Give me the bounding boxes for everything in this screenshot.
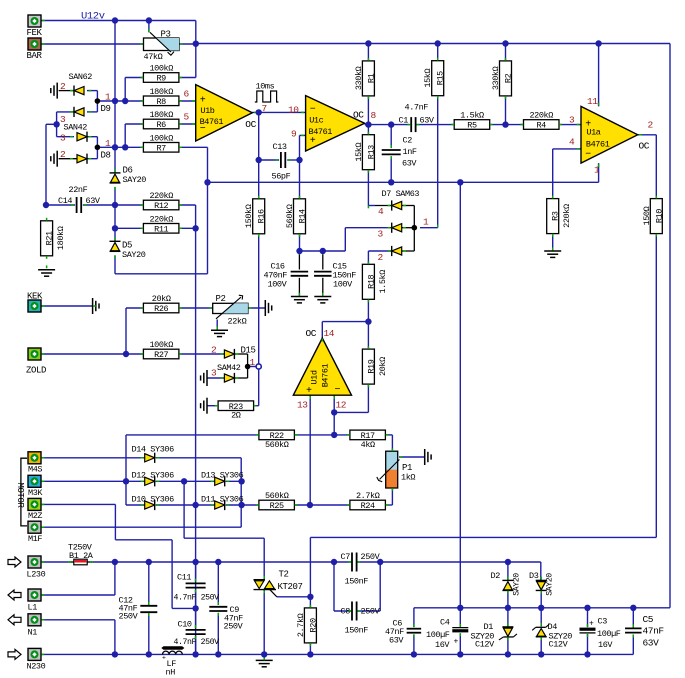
connector L1 <box>28 589 41 601</box>
svg-text:L1: L1 <box>28 603 38 613</box>
wire R13 down to D7 pin4 <box>367 170 369 206</box>
wire R9 right to rail <box>179 77 196 79</box>
wire P3 right to rail <box>179 43 196 45</box>
svg-text:2Ω: 2Ω <box>231 411 241 421</box>
wire bus branch down to supply row <box>459 182 461 608</box>
svg-text:1: 1 <box>105 92 111 103</box>
svg-text:R7: R7 <box>156 144 166 154</box>
capacitor C7 <box>351 553 353 572</box>
svg-text:U1d: U1d <box>310 370 320 384</box>
svg-text:C4: C4 <box>440 618 450 628</box>
wire down to T2 gate and R20 <box>309 537 311 607</box>
svg-text:U1c: U1c <box>309 115 323 125</box>
connector ZOLD <box>28 348 41 360</box>
capacitor C8 <box>351 602 353 621</box>
wire D3 D4 column <box>540 590 542 608</box>
triac T2 <box>254 579 266 581</box>
svg-text:R18: R18 <box>366 274 376 288</box>
svg-text:B4761: B4761 <box>200 117 224 127</box>
svg-text:R25: R25 <box>270 501 284 511</box>
potentiometer P2 <box>213 303 248 313</box>
resistor R15 <box>432 61 444 96</box>
svg-text:R8: R8 <box>156 97 166 107</box>
svg-text:R6: R6 <box>156 120 166 130</box>
capacitor C3 <box>580 628 596 631</box>
wire SAN42 anodes <box>57 111 74 113</box>
resistor R25 <box>259 500 295 510</box>
diode D12 <box>145 477 155 485</box>
svg-text:3: 3 <box>211 368 217 379</box>
svg-text:2: 2 <box>211 345 217 356</box>
wire R22 R17 row <box>126 434 259 436</box>
resistor R1 <box>362 61 374 96</box>
wire M3K row <box>41 480 145 482</box>
svg-text:150nF: 150nF <box>345 577 369 587</box>
svg-text:R15: R15 <box>436 71 446 85</box>
wire C2 column <box>390 125 392 149</box>
wire SAN42 cathodes to node D8 <box>87 136 97 138</box>
wire D14 cathode across <box>156 457 241 459</box>
connector M2Z <box>28 498 41 510</box>
svg-text:12: 12 <box>336 400 347 411</box>
diode SAN62 b <box>74 108 84 116</box>
svg-text:D12 SY306: D12 SY306 <box>132 471 175 481</box>
wire R2 column <box>505 44 507 61</box>
capacitor C6 <box>407 628 422 630</box>
svg-text:250V: 250V <box>119 612 139 622</box>
svg-text:OC: OC <box>306 328 317 339</box>
wire SAN62 top lead <box>59 90 74 92</box>
ground at SAN62 pin2 <box>56 83 58 99</box>
svg-text:560kΩ: 560kΩ <box>285 204 295 228</box>
svg-text:330kΩ: 330kΩ <box>354 66 364 90</box>
svg-text:47kΩ: 47kΩ <box>144 52 163 62</box>
wire node D8 row <box>97 146 143 148</box>
zener D4 <box>536 626 546 628</box>
svg-text:C13: C13 <box>273 142 287 152</box>
svg-text:C12V: C12V <box>549 640 569 650</box>
svg-text:3: 3 <box>378 229 384 240</box>
svg-text:4kΩ: 4kΩ <box>361 440 375 450</box>
svg-text:16V: 16V <box>598 640 613 650</box>
wire R7 right to bus column <box>179 146 208 148</box>
ground KEK <box>92 298 94 314</box>
wire M1F row <box>41 526 241 528</box>
svg-text:22nF: 22nF <box>69 185 88 195</box>
wire D7 pin3 to C15 row <box>345 227 391 229</box>
node D9 <box>95 98 101 104</box>
svg-text:−: − <box>585 150 591 161</box>
wire R23 right elbow <box>254 405 259 407</box>
svg-text:R3: R3 <box>551 211 561 221</box>
svg-text:R24: R24 <box>361 501 375 511</box>
svg-text:C11: C11 <box>177 573 191 583</box>
svg-text:63V: 63V <box>420 116 435 126</box>
wire C7 C8 loop <box>333 562 335 611</box>
connector M3K <box>28 475 41 487</box>
svg-text:OC: OC <box>353 110 364 121</box>
connector L230 <box>28 556 41 568</box>
wire R6 right to U1b- <box>179 123 196 125</box>
op-amp U1b <box>196 85 253 141</box>
svg-text:OC: OC <box>245 119 256 130</box>
wire C5 column <box>632 608 634 628</box>
diode D3 <box>536 579 547 581</box>
wire R16 column <box>258 160 260 199</box>
svg-text:1.5kΩ: 1.5kΩ <box>460 111 484 121</box>
wire D14 column down to M1F <box>240 458 242 527</box>
svg-text:D10 SY306: D10 SY306 <box>132 494 175 504</box>
wire R18 R19 column <box>367 298 369 349</box>
svg-text:D7 SAM63: D7 SAM63 <box>382 189 420 199</box>
svg-text:2.7kΩ: 2.7kΩ <box>296 613 306 637</box>
svg-text:4.7nF: 4.7nF <box>405 103 429 113</box>
svg-text:C3: C3 <box>598 617 608 627</box>
wire R17 to P1 <box>391 435 393 451</box>
resistor R8 <box>143 96 179 106</box>
svg-text:9: 9 <box>291 129 297 140</box>
svg-text:D8: D8 <box>101 151 111 161</box>
wire C16 stem <box>298 251 300 270</box>
svg-text:U1b: U1b <box>200 106 214 116</box>
ground T2 <box>256 659 273 661</box>
wire supply row 12V <box>414 607 670 609</box>
resistor R27 <box>143 349 179 359</box>
wire P1 wiper <box>399 456 425 458</box>
diode D15 a <box>224 350 234 358</box>
wire D15 cathodes <box>234 353 247 355</box>
svg-text:B4761: B4761 <box>586 139 610 149</box>
svg-text:R9: R9 <box>156 74 166 84</box>
wire R6 left elbow <box>125 123 143 125</box>
wire R22 elbow down to M3K node <box>125 435 127 505</box>
svg-text:20kΩ: 20kΩ <box>152 294 171 304</box>
wire U1b output to U1c <box>252 111 305 113</box>
ground C16 <box>291 296 308 298</box>
svg-text:2.7kΩ: 2.7kΩ <box>356 491 380 501</box>
capacitor C14 <box>76 197 78 213</box>
resistor R5 <box>454 120 490 130</box>
resistor R23 <box>218 401 254 411</box>
svg-text:D6: D6 <box>123 166 133 176</box>
svg-text:100µF: 100µF <box>426 630 450 640</box>
wire C12 column <box>148 562 150 605</box>
capacitor C1 <box>410 117 412 132</box>
svg-text:U1a: U1a <box>586 128 600 138</box>
svg-text:D2: D2 <box>491 571 501 581</box>
resistor R13 <box>362 135 374 170</box>
svg-text:330kΩ: 330kΩ <box>491 66 501 90</box>
svg-text:M3K: M3K <box>28 488 43 498</box>
resistor R12 <box>143 200 179 210</box>
diode D6 <box>110 172 121 174</box>
capacitor C10 <box>186 629 206 631</box>
wire +12V top rail <box>196 43 670 45</box>
connector BAR <box>28 38 41 50</box>
op-amp U1c <box>306 96 365 151</box>
wire N230 row <box>41 653 633 655</box>
wire D7 pin2 to R18 <box>368 250 391 252</box>
svg-text:16V: 16V <box>435 640 450 650</box>
svg-text:10: 10 <box>288 105 299 116</box>
svg-text:M1F: M1F <box>28 534 42 544</box>
wire R19 elbow to pin12 column <box>334 411 368 413</box>
svg-text:3: 3 <box>60 133 66 144</box>
svg-text:1: 1 <box>250 357 256 368</box>
svg-text:180kΩ: 180kΩ <box>56 226 66 250</box>
resistor R11 <box>143 224 179 234</box>
svg-text:560kΩ: 560kΩ <box>265 440 289 450</box>
svg-text:4.7nF 250V: 4.7nF 250V <box>174 594 220 603</box>
wire SAN62 cathode to node D9 <box>87 90 97 92</box>
resistor R9 <box>143 73 179 83</box>
node D15 pin1 <box>245 364 251 370</box>
ground P2 right <box>264 300 266 316</box>
resistor R19 <box>362 349 374 384</box>
wire U1d output <box>321 322 323 338</box>
wire U12v rail from FEK <box>41 20 196 22</box>
ground D15 pin3 <box>206 370 208 386</box>
svg-text:KT207: KT207 <box>278 582 303 592</box>
svg-text:R13: R13 <box>366 145 376 159</box>
diode D13 <box>215 477 225 485</box>
potentiometer P3 <box>144 38 180 51</box>
connector FEK <box>28 15 41 27</box>
svg-text:7: 7 <box>262 103 267 114</box>
svg-text:47nF: 47nF <box>643 626 665 637</box>
svg-text:C12V: C12V <box>475 640 495 650</box>
wire D15 pin3 lead <box>207 377 224 379</box>
svg-text:SAN42: SAN42 <box>64 123 88 133</box>
capacitor C13 <box>280 152 282 168</box>
wire right rail down <box>669 44 671 608</box>
svg-text:R27: R27 <box>154 350 168 360</box>
wire U1c output row <box>365 124 410 126</box>
svg-text:560kΩ: 560kΩ <box>265 491 289 501</box>
wire bus up to U1a pin1 <box>598 163 600 182</box>
svg-text:R26: R26 <box>154 304 168 314</box>
svg-text:100kΩ: 100kΩ <box>149 134 173 144</box>
svg-text:220kΩ: 220kΩ <box>149 191 173 201</box>
svg-text:R19: R19 <box>366 359 376 373</box>
svg-text:100kΩ: 100kΩ <box>149 340 173 350</box>
ground P2 wiper <box>211 329 228 331</box>
svg-text:20kΩ: 20kΩ <box>378 357 388 376</box>
diode SAN42 b <box>77 155 87 163</box>
wire reference bus <box>208 181 599 183</box>
wire C11 C10 column <box>195 562 197 582</box>
wire C15 stem <box>322 251 324 270</box>
svg-text:C2: C2 <box>403 136 413 146</box>
wire C14 row <box>46 204 75 206</box>
motor connector bracket <box>21 458 27 526</box>
svg-text:R21: R21 <box>45 231 55 245</box>
svg-text:+: + <box>589 620 594 629</box>
svg-text:250V: 250V <box>224 622 244 632</box>
wire D10 anode <box>126 504 145 506</box>
svg-text:R14: R14 <box>298 209 308 223</box>
svg-text:+: + <box>162 655 166 662</box>
svg-text:N230: N230 <box>27 662 46 672</box>
wire U1a output to R10 <box>638 134 657 136</box>
wire D13 cathode <box>226 480 242 482</box>
wire D12 to D13 <box>156 480 215 482</box>
svg-text:D11 SY306: D11 SY306 <box>201 494 244 504</box>
svg-text:D15: D15 <box>241 346 256 356</box>
svg-text:C7: C7 <box>341 552 351 562</box>
svg-text:R2: R2 <box>504 73 514 83</box>
wire node D9 row <box>97 100 143 102</box>
svg-text:D5: D5 <box>122 241 132 251</box>
ground R3 <box>544 250 561 252</box>
svg-text:ZOLD: ZOLD <box>26 366 46 376</box>
connector M4S <box>28 452 41 464</box>
svg-text:100kΩ: 100kΩ <box>149 64 173 74</box>
svg-text:D4: D4 <box>548 622 558 632</box>
wire C13 right up to U1c pin9 <box>299 135 301 160</box>
svg-text:2: 2 <box>60 81 66 92</box>
svg-text:56pF: 56pF <box>272 172 291 182</box>
svg-text:6: 6 <box>184 89 190 100</box>
connector KEK <box>28 300 41 312</box>
wire U1a pin11 <box>598 44 600 107</box>
wire T2 gate <box>277 596 311 598</box>
svg-text:220kΩ: 220kΩ <box>529 111 553 121</box>
svg-text:13: 13 <box>297 400 308 411</box>
wire T2 column <box>263 538 265 579</box>
svg-text:SAN62: SAN62 <box>69 72 93 82</box>
wire U1a pin4 to R3 <box>553 148 581 150</box>
svg-text:MOTOR: MOTOR <box>15 482 25 508</box>
wire C13 row <box>259 159 279 161</box>
wire ZOLD row <box>40 353 144 355</box>
svg-text:150Ω: 150Ω <box>642 206 652 225</box>
svg-text:SAY20: SAY20 <box>122 250 146 260</box>
svg-text:1: 1 <box>105 138 111 149</box>
diode SAN42 a <box>77 133 87 141</box>
svg-text:2: 2 <box>60 149 66 160</box>
svg-text:nH: nH <box>166 668 176 678</box>
wire C9 column <box>217 562 219 605</box>
svg-text:14: 14 <box>324 328 335 339</box>
svg-text:T2: T2 <box>279 570 289 580</box>
wire R23 left lead <box>207 405 218 407</box>
resistor R16 <box>253 199 265 234</box>
wire KEK to ground <box>41 305 93 307</box>
svg-text:D14 SY306: D14 SY306 <box>132 445 175 455</box>
svg-text:D9: D9 <box>101 104 111 114</box>
wire T2 ground stem <box>263 654 265 660</box>
svg-text:5: 5 <box>184 112 190 123</box>
svg-text:−: − <box>310 105 316 116</box>
wire R14 column <box>299 160 301 199</box>
arrow L230 <box>8 557 21 567</box>
svg-text:1kΩ: 1kΩ <box>401 473 415 483</box>
diode D11 <box>215 501 225 509</box>
svg-text:R1: R1 <box>366 73 376 83</box>
wire U1d pin13 down <box>309 395 311 505</box>
svg-text:4: 4 <box>378 206 384 217</box>
wire R9 left elbow <box>125 77 143 79</box>
svg-text:63V: 63V <box>389 636 404 646</box>
wire C4 column <box>459 608 461 627</box>
svg-text:15kΩ: 15kΩ <box>423 69 433 88</box>
svg-text:C14: C14 <box>58 196 72 206</box>
svg-text:R20: R20 <box>308 618 318 632</box>
resistor R4 <box>524 120 560 130</box>
connector N1 <box>28 614 41 626</box>
wire M2Z row <box>41 503 115 505</box>
capacitor C5 <box>625 627 642 629</box>
wire C6 column <box>413 608 415 627</box>
wire R10 down to gate row <box>655 234 657 538</box>
svg-text:FEK: FEK <box>27 28 43 38</box>
svg-text:KEK: KEK <box>27 292 43 302</box>
wire R15 column down to D7 node <box>437 44 439 61</box>
svg-text:8: 8 <box>371 110 377 121</box>
svg-text:D3: D3 <box>529 571 539 581</box>
wire M4S row <box>41 457 145 459</box>
svg-text:150kΩ: 150kΩ <box>244 204 254 228</box>
diode SAN62 a <box>74 87 84 95</box>
diode D7 c <box>392 247 402 255</box>
svg-text:100V: 100V <box>268 280 288 290</box>
svg-text:2: 2 <box>378 252 384 263</box>
resistor R7 <box>143 143 179 153</box>
resistor R17 <box>350 430 386 440</box>
svg-text:10ms: 10ms <box>256 82 275 92</box>
svg-text:SAM42: SAM42 <box>217 363 241 373</box>
wire BAR to P3 <box>41 43 144 45</box>
svg-text:4: 4 <box>569 137 575 148</box>
wire C15 C16 row <box>300 250 323 252</box>
ground R21 <box>38 269 55 271</box>
svg-text:L230: L230 <box>27 570 46 580</box>
pin ticks <box>42 20 45 22</box>
resistor R22 <box>259 430 295 440</box>
wire L230 row <box>41 561 70 563</box>
resistor R18 <box>362 264 374 299</box>
wire SAN42 bottom lead <box>59 158 77 160</box>
wire left branch down to C14 row <box>45 124 47 205</box>
svg-text:B4761: B4761 <box>321 363 331 387</box>
wire C3 column <box>587 608 589 627</box>
svg-text:1nF: 1nF <box>403 147 417 157</box>
svg-text:+: + <box>310 136 316 147</box>
capacitor C9 <box>209 606 227 608</box>
svg-text:SAY20: SAY20 <box>123 175 147 185</box>
svg-text:22kΩ: 22kΩ <box>228 317 247 327</box>
svg-text:63V: 63V <box>643 638 660 649</box>
svg-text:P3: P3 <box>161 30 171 40</box>
zener D1 <box>502 626 513 628</box>
resistor R14 <box>294 199 306 234</box>
junction ring <box>256 364 261 369</box>
wire U1b out down to C13 <box>258 112 260 160</box>
diode D10 <box>145 501 155 509</box>
svg-text:R5: R5 <box>467 121 477 131</box>
wire D3 top feed <box>540 562 542 580</box>
capacitor C12 <box>140 605 157 607</box>
wire R12 right down <box>179 204 196 206</box>
svg-text:220kΩ: 220kΩ <box>149 215 173 225</box>
wire D2 top feed <box>507 562 509 580</box>
svg-text:220kΩ: 220kΩ <box>562 204 572 228</box>
wire R11 row <box>115 227 144 229</box>
wire D7 common <box>413 206 415 252</box>
svg-text:+: + <box>454 638 459 647</box>
wire R26 left P2 row <box>179 307 213 309</box>
